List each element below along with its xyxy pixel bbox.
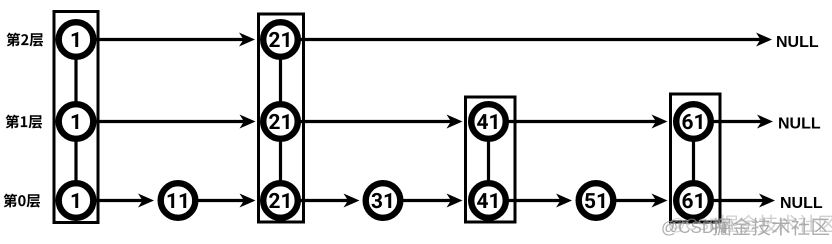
label 第0层 (level-0) xyxy=(4,194,41,208)
label 第1层 (level-1) xyxy=(6,115,43,129)
node 61 level-1 xyxy=(676,104,711,139)
arrow L1: 1 -> 21 xyxy=(76,115,256,129)
watermark @CSDN 掘金技术社区 (ghosted) xyxy=(661,214,832,237)
arrow L1: 21 -> 41 xyxy=(281,115,463,129)
arrow L1: 61 -> NULL xyxy=(694,115,774,129)
svg-text:NULL: NULL xyxy=(776,34,819,51)
node 11 level-0 xyxy=(161,183,196,218)
arrow L2: 21 -> NULL xyxy=(281,33,773,47)
node 1 level-0 xyxy=(59,183,94,218)
arrow L2: 1 -> 21 xyxy=(76,33,255,47)
wire 1:L2-L1 xyxy=(74,40,77,122)
box around node-41 tower xyxy=(466,97,516,222)
wire 1:L1-L0 xyxy=(74,122,77,201)
node 31 level-0 xyxy=(366,183,401,218)
node 21 level-0 xyxy=(263,183,298,218)
wire 21:L2-L1 xyxy=(279,40,282,122)
node 21 level-2 xyxy=(263,22,298,57)
box around node-61 tower xyxy=(671,94,721,222)
node 61 level-0 xyxy=(676,183,711,218)
box around node-1 tower xyxy=(54,12,98,223)
node 1 level-2 xyxy=(59,22,94,57)
node 21 level-1 xyxy=(263,104,298,139)
node 41 level-0 xyxy=(471,183,506,218)
arrow L0: 11 -> 21 xyxy=(178,194,256,208)
box around node-21 tower xyxy=(259,14,304,222)
wire 21:L1-L0 xyxy=(279,122,282,201)
node 51 level-0 xyxy=(579,183,614,218)
arrow L0: 21 -> 31 xyxy=(281,194,360,208)
wire 41:L1-L0 xyxy=(487,122,490,201)
arrow L0: 51 -> 61 xyxy=(596,194,668,208)
label 第2层 (level-2) xyxy=(7,33,44,47)
node 1 level-1 xyxy=(59,104,94,139)
wire 61:L1-L0 xyxy=(692,122,695,201)
arrow L1: 41 -> 61 xyxy=(489,115,668,129)
svg-text:NULL: NULL xyxy=(780,195,823,212)
svg-text:NULL: NULL xyxy=(778,115,821,132)
node 41 level-1 xyxy=(471,104,506,139)
arrow L0: 31 -> 41 xyxy=(383,194,463,208)
arrow L0: 41 -> 51 xyxy=(489,194,573,208)
arrow L0: 61 -> NULL xyxy=(694,194,776,208)
arrow L0: 1 -> 11 xyxy=(76,194,154,208)
